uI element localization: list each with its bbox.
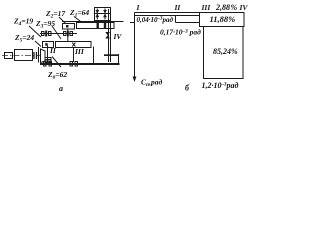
svg-text:IV: IV xyxy=(113,32,123,41)
svg-text:IV: IV xyxy=(239,3,249,12)
svg-text:0,17·10–3 рад: 0,17·10–3 рад xyxy=(160,28,201,37)
svg-text:III: III xyxy=(74,47,85,56)
svg-text:Cп,рад: Cп,рад xyxy=(141,78,162,89)
svg-text:0,04·10–3рад: 0,04·10–3рад xyxy=(137,16,174,24)
svg-text:Z3=95: Z3=95 xyxy=(35,19,55,30)
svg-text:Z4=19: Z4=19 xyxy=(13,17,33,28)
svg-text:а: а xyxy=(59,84,63,93)
svg-text:Z6=62: Z6=62 xyxy=(47,70,67,81)
svg-text:11,88%: 11,88% xyxy=(210,14,236,24)
svg-text:Z2=17: Z2=17 xyxy=(45,9,65,20)
svg-text:1,2·10–3рад: 1,2·10–3рад xyxy=(202,81,239,90)
svg-text:Z1=64: Z1=64 xyxy=(69,8,89,19)
svg-text:II: II xyxy=(174,3,182,12)
svg-text:II: II xyxy=(49,46,57,55)
svg-text:III: III xyxy=(201,3,212,12)
svg-text:2,88: 2,88 xyxy=(215,3,230,12)
svg-text:Z5=24: Z5=24 xyxy=(14,33,34,44)
svg-text:%: % xyxy=(231,3,238,12)
svg-text:85,24%: 85,24% xyxy=(213,47,238,56)
